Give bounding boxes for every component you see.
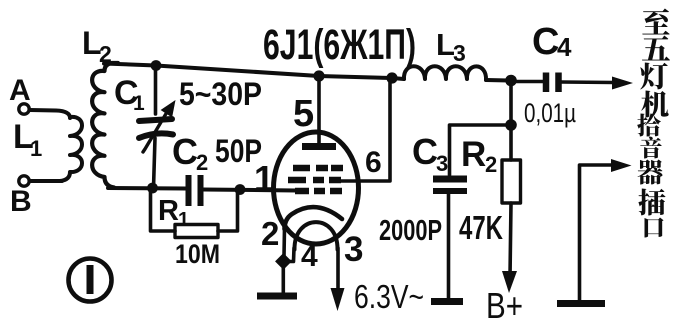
svg-text:4: 4 bbox=[557, 32, 572, 62]
arrowhead 6.3V bbox=[331, 288, 345, 311]
svg-text:C: C bbox=[532, 21, 559, 63]
wire C4 to output arrow bbox=[561, 80, 614, 84]
tuning coil L2 bbox=[92, 63, 118, 188]
figure number I in circle bbox=[69, 259, 112, 302]
label C3 bbox=[412, 131, 448, 176]
cathode arc bbox=[285, 207, 343, 229]
label pin 2 bbox=[261, 215, 279, 252]
node: junction R2/C3 bbox=[505, 119, 517, 131]
svg-text:1: 1 bbox=[254, 158, 274, 199]
label 6.3V~ bbox=[354, 278, 424, 315]
label: vertical Chinese text 至五灯机拾音器插口 bbox=[637, 8, 670, 237]
wire C2 to tube pin 1 bbox=[203, 190, 296, 191]
svg-text:2: 2 bbox=[99, 41, 112, 67]
label A bbox=[9, 74, 31, 107]
svg-text:2000P: 2000P bbox=[379, 215, 442, 247]
svg-text:C: C bbox=[412, 131, 438, 172]
label 47K bbox=[459, 209, 503, 246]
ground (cathode) bbox=[257, 293, 297, 300]
grid g1 (control) dashes bbox=[295, 188, 342, 195]
svg-text:47K: 47K bbox=[459, 209, 503, 246]
svg-text:C: C bbox=[172, 131, 198, 172]
pin 3 lead (heater supply) bbox=[336, 248, 340, 293]
arrowhead of C1 bbox=[161, 100, 176, 118]
capacitor C2 bbox=[189, 175, 201, 206]
node: junction C2/R1 right bbox=[235, 184, 246, 195]
svg-text:10M: 10M bbox=[175, 239, 220, 269]
arrowhead output bottom bbox=[611, 159, 632, 172]
label B bbox=[10, 185, 32, 218]
output ground branch wire bbox=[580, 165, 614, 300]
label L3 bbox=[436, 27, 466, 66]
earth terminal B bbox=[19, 176, 29, 186]
svg-text:3: 3 bbox=[453, 40, 466, 66]
node: cathode/heater junction (diamond) bbox=[275, 253, 292, 270]
label 2000P bbox=[379, 215, 442, 247]
node: junction grid line left bbox=[147, 183, 158, 194]
label C4 bbox=[532, 21, 572, 63]
svg-text:2: 2 bbox=[485, 152, 497, 177]
pin 6 lead to rail bbox=[341, 80, 390, 181]
node: anode junction on rail bbox=[313, 70, 324, 81]
wire to C3 bbox=[450, 125, 512, 175]
label R2 bbox=[461, 135, 497, 177]
pin 4 lead (heater) bbox=[287, 248, 294, 262]
label pin 6 bbox=[365, 146, 382, 179]
capacitor C3 bbox=[433, 179, 467, 191]
label pin 3 bbox=[344, 230, 363, 269]
grid g3 (suppressor) dashes bbox=[293, 165, 343, 172]
label L2 bbox=[82, 25, 112, 67]
variable capacitor C1 bbox=[139, 66, 173, 188]
label pin 1 bbox=[254, 158, 274, 199]
pin 5 lead (anode) bbox=[317, 77, 321, 146]
svg-text:A: A bbox=[9, 74, 31, 107]
svg-text:B: B bbox=[10, 185, 32, 218]
ground (C3) bbox=[431, 298, 463, 305]
svg-text:6J1(6Ж1П): 6J1(6Ж1П) bbox=[263, 21, 416, 69]
anode plate bar bbox=[302, 143, 336, 150]
wire: L3 to C4 junction bbox=[486, 78, 512, 83]
resistor R2 lead bottom / B+ arrow shaft bbox=[510, 203, 511, 277]
svg-text:2: 2 bbox=[261, 215, 279, 252]
label 5~30P bbox=[179, 76, 262, 112]
antenna terminal A bbox=[19, 104, 29, 114]
rf choke L3 bbox=[404, 66, 486, 80]
svg-text:6: 6 bbox=[365, 146, 382, 179]
svg-text:3: 3 bbox=[344, 230, 363, 269]
ground (output) bbox=[557, 300, 605, 307]
label pin 5 bbox=[293, 93, 314, 135]
label pin 4 bbox=[301, 240, 318, 273]
label 10M bbox=[175, 239, 220, 269]
node: junction L3/C4/R2 bbox=[505, 75, 517, 87]
svg-text:1: 1 bbox=[133, 92, 145, 115]
label C2 50P bbox=[172, 131, 262, 175]
resistor R2 body bbox=[502, 160, 521, 203]
svg-text:5~30P: 5~30P bbox=[179, 76, 262, 112]
label C1 bbox=[114, 74, 145, 115]
arrowhead output top bbox=[612, 77, 633, 90]
svg-text:2: 2 bbox=[196, 150, 208, 175]
pin 2 lead (cathode) bbox=[282, 228, 286, 256]
arrowhead B+ bbox=[502, 271, 517, 293]
svg-text:0,01µ: 0,01µ bbox=[524, 98, 576, 128]
wire junction to chassis ground bbox=[281, 262, 285, 293]
capacitor C4 bbox=[546, 73, 559, 93]
wire L2 bottom / grid line to C2 bbox=[108, 186, 186, 191]
wire A to L1 bbox=[30, 110, 70, 118]
resistor R1 body bbox=[175, 225, 218, 238]
svg-text:6.3V~: 6.3V~ bbox=[354, 278, 424, 315]
wire C4 input bbox=[514, 80, 543, 84]
heater filament arc bbox=[294, 222, 337, 249]
label L1 bbox=[13, 118, 42, 161]
svg-text:B+: B+ bbox=[486, 285, 523, 325]
svg-text:R: R bbox=[461, 135, 486, 174]
svg-text:3: 3 bbox=[436, 151, 448, 176]
wire C3 to ground bbox=[447, 192, 451, 299]
resistor R1 leads bbox=[151, 190, 238, 231]
svg-text:1: 1 bbox=[30, 136, 42, 161]
resistor R2 lead top bbox=[509, 126, 513, 160]
wire: top rail from L2 top to L3 bbox=[104, 64, 404, 80]
antenna coil L1 bbox=[60, 117, 82, 181]
node: junction g2 on rail bbox=[386, 72, 397, 83]
svg-text:1: 1 bbox=[178, 209, 189, 231]
label R1 bbox=[158, 195, 189, 231]
vacuum tube 6J1 envelope bbox=[274, 132, 359, 244]
svg-text:4: 4 bbox=[301, 240, 318, 273]
title 6J1(6Ж1П) bbox=[263, 21, 416, 69]
svg-text:R: R bbox=[158, 195, 179, 227]
wire junction down to R2 bbox=[509, 81, 513, 125]
wire L1 to B bbox=[31, 179, 62, 183]
node: junction L2/C1 top rail bbox=[151, 60, 162, 71]
svg-text:5: 5 bbox=[293, 93, 314, 135]
label B+ bbox=[486, 285, 523, 325]
label 0.01u bbox=[524, 98, 576, 128]
grid g2 (screen) dashes bbox=[288, 177, 341, 184]
